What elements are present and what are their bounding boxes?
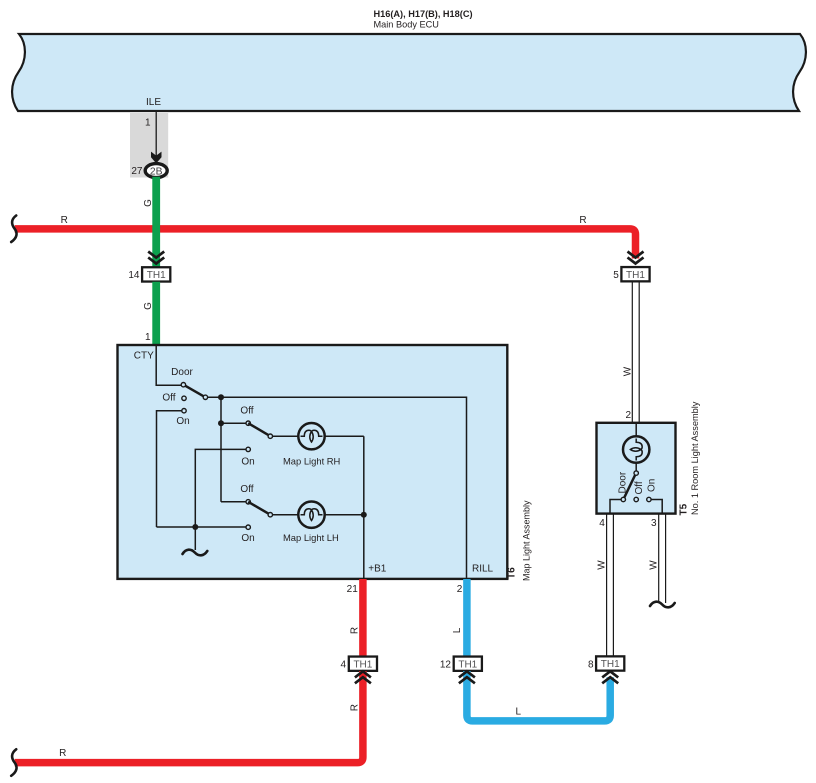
wire LH lamp to +B1 node: [325, 514, 364, 516]
room light switch arm (Door position): [624, 474, 636, 499]
blue wire L from RILL pin 2 to TH1 (12): [463, 579, 471, 656]
wire to RH Off contact: [221, 422, 246, 424]
svg-text:1: 1: [145, 332, 151, 343]
Off contact (RH): [246, 421, 250, 425]
connector arrows into TH1 (14): [148, 252, 164, 264]
svg-text:Main Body ECU: Main Body ECU: [374, 20, 439, 30]
wire On contact to pin 3: [651, 500, 662, 514]
svg-text:2: 2: [625, 410, 631, 421]
wire common to RILL: [208, 397, 467, 578]
connector TH1 pin 8: [596, 656, 624, 670]
svg-text:CTY: CTY: [134, 351, 154, 362]
svg-text:L: L: [452, 627, 463, 633]
Map Light LH bulb: [298, 502, 324, 528]
wire junction down to lamp switches: [220, 397, 222, 502]
svg-text:R: R: [349, 704, 360, 711]
svg-text:14: 14: [128, 270, 140, 281]
svg-text:On: On: [647, 479, 658, 492]
svg-text:Off: Off: [162, 393, 175, 404]
green wire G from TH1 (14) to CTY pin 1: [152, 282, 160, 345]
wire RH lamp to +B1 riser: [325, 435, 364, 437]
wire to LH Off contact: [221, 501, 246, 503]
On contact (RH): [246, 447, 250, 451]
svg-text:R: R: [61, 215, 68, 226]
connector TH1 pin 4: [349, 657, 377, 671]
green wire G from 2B to TH1 (14): [152, 177, 160, 267]
wire RH On to ground bus: [195, 449, 246, 527]
Door contact: [621, 497, 625, 501]
svg-text:L: L: [516, 707, 522, 718]
svg-text:2B: 2B: [150, 166, 163, 177]
red wire R below TH1 (4) to bottom trunk: [15, 671, 363, 763]
Door contact (map): [181, 383, 185, 387]
svg-text:On: On: [241, 533, 254, 544]
svg-text:Off: Off: [240, 484, 253, 495]
ground drop wire: [194, 527, 196, 550]
main switch arm (Door position): [183, 385, 205, 398]
svg-text:8: 8: [588, 659, 594, 670]
connector arrows into TH1 (4): [355, 671, 371, 683]
wire bulb to switch pivot: [635, 463, 637, 472]
svg-text:2: 2: [457, 584, 463, 595]
switch pivot contact: [634, 471, 638, 475]
room light bulb: [623, 436, 649, 462]
Off contact: [634, 497, 638, 501]
svg-text:12: 12: [440, 660, 452, 671]
ground squiggle: [183, 550, 208, 556]
white wire W pin 3 (stub): [658, 514, 660, 603]
wire LH common to lamp: [273, 514, 299, 516]
wire break squiggle (bottom left): [11, 749, 16, 776]
svg-text:T6: T6: [507, 567, 518, 579]
red power wire R (top trunk): [15, 229, 636, 259]
svg-text:Off: Off: [634, 481, 645, 494]
svg-text:Map Light LH: Map Light LH: [283, 532, 339, 543]
svg-text:3: 3: [651, 518, 657, 529]
white wire W from TH1 (5) to room light pin 2: [631, 282, 633, 424]
No. 1 Room Light Assembly box T5: [597, 423, 676, 514]
Main Body ECU block (band): [12, 34, 806, 111]
svg-text:1: 1: [145, 118, 151, 129]
LH common contact: [268, 513, 272, 517]
RH switch arm: [248, 423, 270, 436]
connector arrows into TH1 (12): [459, 671, 475, 683]
svg-text:ILE: ILE: [146, 97, 161, 108]
gray highlight strip under ILE: [130, 113, 168, 178]
svg-text:W: W: [597, 560, 608, 570]
node +B1 join: [361, 512, 367, 518]
svg-text:5: 5: [613, 270, 619, 281]
switch common contact: [203, 395, 207, 399]
RH common contact: [268, 434, 272, 438]
connector arrows into TH1 (5): [628, 252, 644, 264]
On contact (map main): [182, 409, 186, 413]
svg-text:Map Light RH: Map Light RH: [283, 456, 340, 467]
white wire W pin 4 to TH1 (8): [606, 514, 608, 656]
connector arrows into TH1 (8): [602, 671, 618, 683]
Map Light RH bulb: [298, 423, 324, 449]
Map Light Assembly box T6: [118, 345, 508, 579]
svg-text:4: 4: [340, 660, 346, 671]
svg-text:No. 1 Room Light Assembly: No. 1 Room Light Assembly: [690, 401, 700, 515]
connector 2B oval (pin 27): [145, 164, 167, 178]
arrowhead into 2B: [151, 152, 162, 164]
svg-text:R: R: [349, 627, 360, 634]
ground bus wire: [157, 526, 246, 528]
svg-text:Door: Door: [171, 367, 193, 378]
On contact (LH): [246, 525, 250, 529]
svg-text:27: 27: [131, 166, 143, 177]
svg-text:H16(A), H17(B), H18(C): H16(A), H17(B), H18(C): [374, 9, 473, 19]
svg-text:RILL: RILL: [472, 564, 494, 575]
connector TH1 pin 14: [142, 267, 170, 281]
svg-text:+B1: +B1: [368, 564, 387, 575]
svg-text:G: G: [143, 199, 154, 207]
wire break squiggle (top left): [11, 216, 16, 243]
+B1 riser: [363, 436, 365, 578]
svg-text:On: On: [176, 416, 189, 427]
wire On contact to ground bus: [157, 411, 182, 527]
Off contact (map main): [182, 396, 186, 400]
wire Door contact to pin 4: [610, 500, 621, 514]
svg-text:G: G: [143, 302, 154, 310]
node ground junction: [192, 524, 198, 530]
wire RH common to lamp: [273, 435, 299, 437]
svg-text:On: On: [241, 457, 254, 468]
svg-text:Map Light Assembly: Map Light Assembly: [522, 500, 532, 581]
svg-text:21: 21: [347, 584, 359, 595]
node RH switch feed: [218, 420, 224, 426]
Off contact (LH): [246, 500, 250, 504]
wire break squiggle (pin 3 wire): [650, 602, 675, 608]
wire pin2 to bulb: [635, 423, 637, 437]
svg-text:W: W: [622, 366, 633, 376]
svg-text:Off: Off: [240, 406, 253, 417]
svg-text:R: R: [59, 748, 66, 759]
blue wire L from TH1 (12) to TH1 (8): [467, 671, 610, 721]
wire from ILE pin 1 to connector 2B: [155, 112, 157, 156]
svg-text:T5: T5: [679, 503, 690, 515]
svg-text:4: 4: [599, 518, 605, 529]
connector TH1 pin 12: [454, 657, 482, 671]
On contact: [647, 497, 651, 501]
wire CTY to door switch: [156, 346, 181, 385]
svg-text:W: W: [649, 560, 660, 570]
node main junction: [218, 394, 224, 400]
connector TH1 pin 5: [621, 267, 649, 281]
red wire R from +B1 pin 21 to TH1 (4): [359, 579, 367, 656]
LH switch arm: [248, 502, 270, 515]
svg-text:Door: Door: [618, 471, 629, 493]
svg-text:R: R: [579, 215, 586, 226]
